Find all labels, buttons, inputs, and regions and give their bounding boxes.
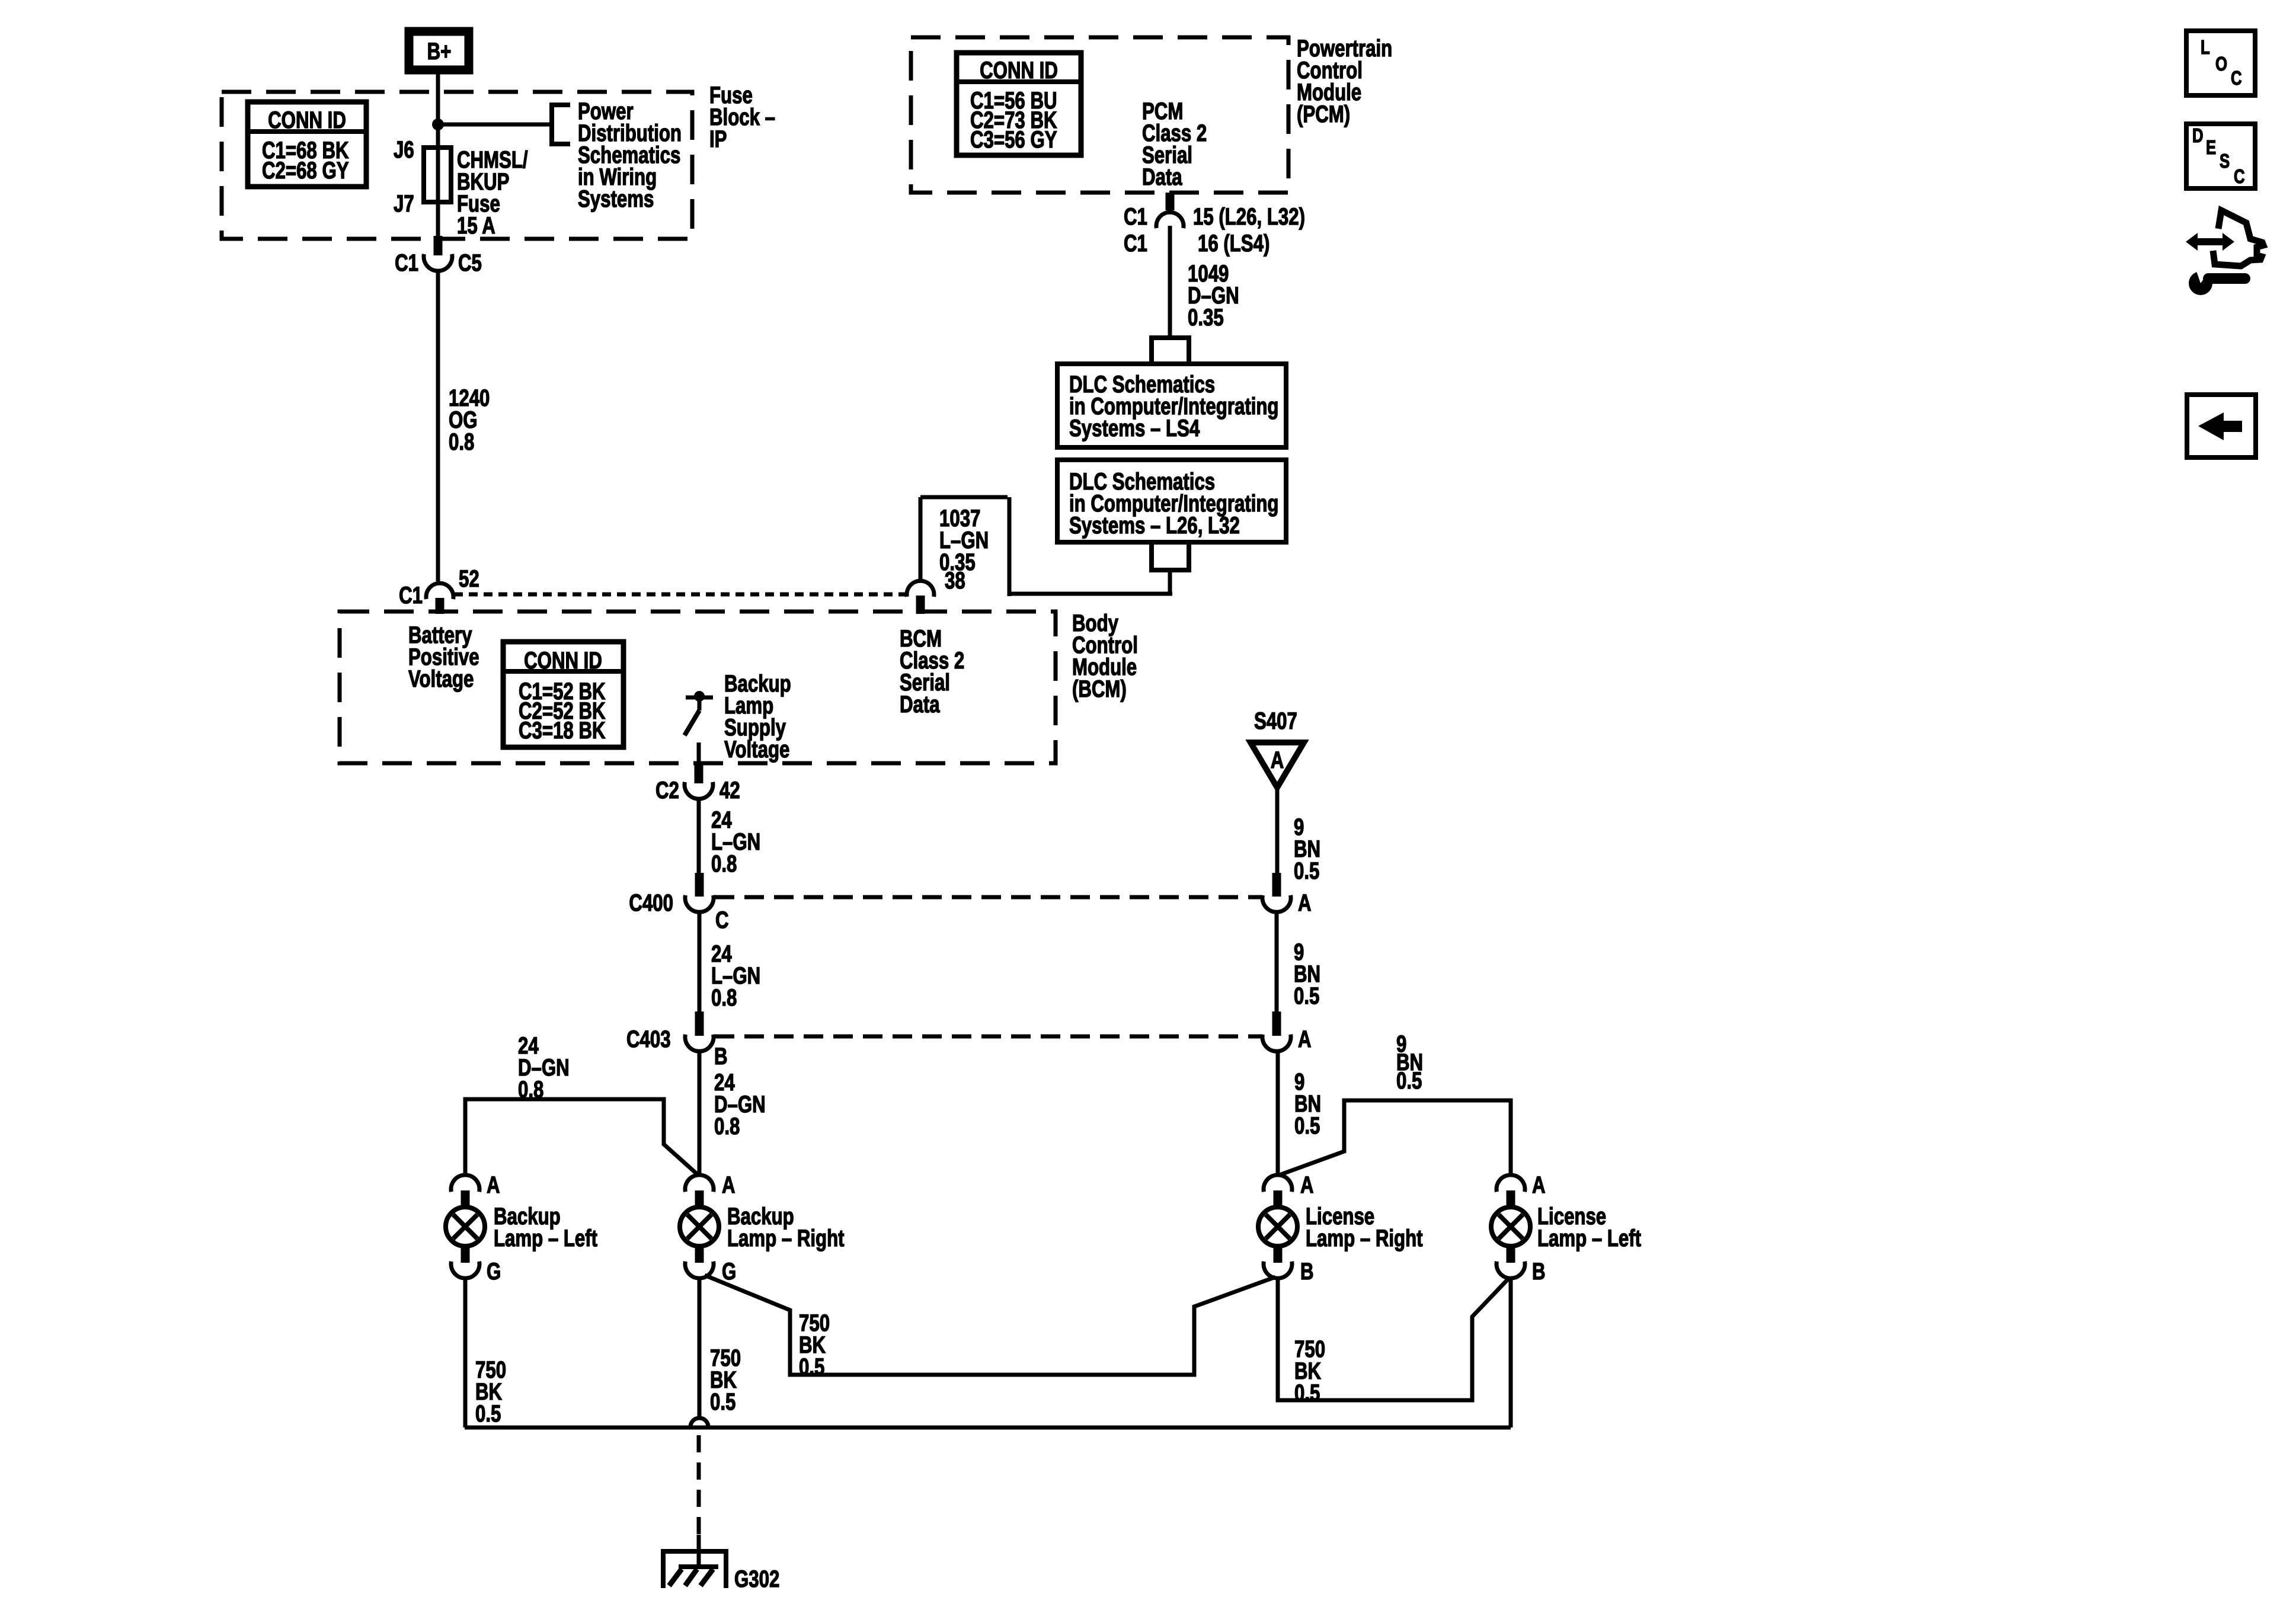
label 750 BK 0.5 [1294, 1336, 1325, 1406]
svg-text:0.8: 0.8 [711, 984, 737, 1011]
svg-text:15 A: 15 A [457, 212, 495, 239]
svg-text:(BCM): (BCM) [1072, 676, 1127, 702]
label 1049 D-GN 0.35 [1188, 260, 1239, 331]
node junction dot on B+ feed [432, 119, 444, 130]
label 750 BK 0.5 [475, 1356, 506, 1427]
lamp License Lamp - Left [1491, 1175, 1530, 1278]
svg-text:CONN ID: CONN ID [268, 107, 346, 133]
label CONN ID title (fuse block) [268, 107, 346, 133]
label Body Control Module (BCM) [1072, 610, 1138, 702]
PCM dashed box (Powertrain Control Module) [911, 37, 1288, 193]
svg-text:0.8: 0.8 [711, 850, 737, 877]
lamp Backup Lamp - Right [680, 1175, 719, 1278]
label 9 BN 0.5 [1294, 814, 1320, 884]
label 42 [720, 777, 740, 804]
wire 750 BK 0.5 backup right down [698, 1278, 702, 1419]
svg-text:C403: C403 [626, 1026, 671, 1052]
svg-text:C1: C1 [1124, 203, 1147, 230]
svg-text:B: B [1300, 1258, 1314, 1285]
connector C1 pin 52 at BCM [426, 583, 453, 614]
wire 750 BK 0.5 backup left to ground bus [463, 1278, 468, 1427]
wire 24 L-GN 0.8 (C400 to C403) [698, 912, 702, 1013]
label C5 [458, 249, 482, 276]
switch backup lamp driver inside BCM [685, 691, 713, 735]
wire junction to Power Distribution bracket [438, 123, 552, 127]
svg-text:Lamp – Left: Lamp – Left [494, 1225, 597, 1251]
label connector ids C1=56 BU / C2=73 BK / C3=56 GY [970, 87, 1057, 153]
svg-text:L: L [2201, 37, 2210, 59]
wire 9 BN 0.5 to license lamps [1276, 1051, 1280, 1176]
svg-text:A: A [1271, 747, 1284, 773]
label 16 (LS4) [1198, 230, 1269, 257]
wire 24 L-GN 0.8 (C2 to C400) [697, 799, 701, 874]
wire ground bus horizontal [465, 1426, 1511, 1430]
svg-text:C2: C2 [655, 777, 679, 804]
connector C1 pin 15/16 at PCM [1156, 193, 1184, 228]
wire 750 BK 0.5 backup right to license right [705, 1275, 1275, 1375]
svg-text:A: A [1298, 889, 1312, 916]
box DLC Schematics LS4 [1057, 364, 1286, 447]
label 24 D-GN 0.8 [714, 1069, 766, 1140]
wire bracket to 1037 run [1168, 570, 1172, 594]
label Power Distribution Schematics in Wiring Systems [578, 98, 682, 212]
wire dashed to G302 [697, 1435, 701, 1538]
label pin A [1300, 1172, 1314, 1198]
label pin A [1298, 889, 1312, 916]
svg-text:(PCM): (PCM) [1297, 101, 1350, 127]
svg-text:16 (LS4): 16 (LS4) [1198, 230, 1269, 257]
wire S407 to C400 A [1275, 788, 1280, 874]
svg-text:0.5: 0.5 [1294, 1379, 1320, 1406]
svg-text:CONN ID: CONN ID [524, 647, 602, 674]
label Powertrain Control Module (PCM) [1297, 35, 1392, 127]
label 9 BN 0.5 [1294, 939, 1320, 1009]
svg-text:0.5: 0.5 [475, 1400, 501, 1427]
svg-text:B+: B+ [427, 38, 452, 65]
svg-text:0.35: 0.35 [1188, 304, 1224, 331]
label pin A [487, 1172, 500, 1198]
svg-text:IP: IP [709, 126, 727, 152]
label pin C [715, 907, 729, 933]
svg-text:S: S [2220, 151, 2230, 172]
icon vehicle navigation arrow [2186, 210, 2263, 295]
label pin A [1298, 1026, 1312, 1052]
node splice hump at ground bus [690, 1418, 708, 1427]
label C400 [629, 889, 673, 916]
label Fuse Block - IP [709, 82, 775, 152]
label 24 D-GN 0.8 (left branch) [518, 1032, 570, 1103]
label 750 BK 0.5 [799, 1310, 830, 1380]
CONN ID table (PCM) [957, 53, 1081, 155]
svg-text:52: 52 [459, 565, 479, 592]
svg-text:Lamp – Right: Lamp – Right [727, 1225, 845, 1251]
dashed connector line C400 [715, 895, 1261, 900]
svg-text:O: O [2215, 53, 2227, 75]
wire branch to backup lamp left [465, 1099, 698, 1176]
label pin G [722, 1258, 736, 1285]
label pin G [487, 1258, 501, 1285]
connector C400 pin C (left) [685, 873, 714, 912]
label J7 [394, 190, 414, 217]
label C1 (row 2) [1124, 230, 1147, 257]
svg-text:Voltage: Voltage [724, 736, 789, 763]
off-page bracket below DLC box 2 [1152, 542, 1189, 570]
svg-text:J7: J7 [394, 190, 414, 217]
icon DESC box [2186, 124, 2255, 188]
wire 1049 D-GN 0.35 [1168, 226, 1172, 338]
svg-text:CONN ID: CONN ID [980, 57, 1058, 84]
svg-text:C3=18 BK: C3=18 BK [519, 717, 606, 744]
svg-text:E: E [2206, 137, 2216, 159]
label Battery Positive Voltage [408, 622, 479, 692]
CONN ID table (BCM) [503, 642, 623, 747]
fuse CHMSL/BKUP 15A (J6/J7) [424, 148, 451, 202]
svg-text:S407: S407 [1254, 708, 1297, 734]
label pin A [722, 1172, 736, 1198]
label DLC Schematics in Computer/Integrating Systems - L26, L32 [1069, 468, 1278, 539]
ground G302 [661, 1551, 728, 1588]
wire license left down to ground bus [1509, 1278, 1513, 1427]
svg-text:15 (L26, L32): 15 (L26, L32) [1193, 203, 1305, 230]
connector C1/C5 below fuse block [424, 236, 452, 271]
off-page bracket into DLC box 1 [1152, 338, 1189, 364]
label PCM Class 2 Serial Data [1142, 98, 1207, 190]
svg-text:Systems – LS4: Systems – LS4 [1069, 415, 1200, 441]
label J6 [394, 136, 414, 163]
label connector ids C1=68 BK / C2=68 GY [262, 137, 349, 184]
svg-text:A: A [722, 1172, 736, 1198]
connector C403 pin A (right) [1262, 1012, 1291, 1051]
svg-text:C400: C400 [629, 889, 673, 916]
label 15 (L26, L32) [1193, 203, 1305, 230]
fuse block dashed box (Fuse Block - IP) [222, 92, 692, 239]
svg-text:G: G [722, 1258, 736, 1285]
label License Lamp - Left [1537, 1203, 1641, 1251]
label C1 [395, 249, 418, 276]
wire branch to license lamp left [1281, 1100, 1511, 1176]
label 750 BK 0.5 [710, 1345, 741, 1415]
label pin B [714, 1043, 728, 1070]
label S407 [1254, 708, 1297, 734]
svg-text:C1: C1 [399, 582, 423, 609]
svg-text:Lamp – Right: Lamp – Right [1306, 1225, 1423, 1251]
svg-text:A: A [1298, 1026, 1312, 1052]
label 9 BN 0.5 (left branch) [1396, 1030, 1423, 1094]
lamp License Lamp - Right [1258, 1175, 1297, 1278]
svg-text:G302: G302 [734, 1566, 779, 1592]
svg-text:0.8: 0.8 [714, 1113, 740, 1140]
svg-text:C: C [2234, 166, 2245, 188]
svg-text:C: C [715, 907, 729, 933]
svg-text:J6: J6 [394, 136, 414, 163]
wire B+ down through fuse to connector [436, 74, 440, 237]
svg-text:0.5: 0.5 [1294, 1112, 1320, 1139]
label pin B [1300, 1258, 1314, 1285]
svg-text:A: A [1532, 1172, 1546, 1198]
label connector ids C1=52 BK / C2=52 BK / C3=18 BK [519, 678, 606, 744]
label Backup Lamp Supply Voltage [724, 670, 791, 763]
label C1 (row 1) [1124, 203, 1147, 230]
svg-text:A: A [1300, 1172, 1314, 1198]
svg-text:0.5: 0.5 [1396, 1067, 1422, 1094]
box DLC Schematics L26,L32 [1057, 460, 1286, 542]
label 24 L-GN 0.8 [711, 806, 760, 877]
node B+ battery feed [409, 31, 469, 70]
svg-text:C1: C1 [1124, 230, 1147, 257]
label 24 L-GN 0.8 [711, 940, 760, 1011]
connector C403 pin B (left) [685, 1012, 714, 1051]
bracket Power Distribution reference [552, 105, 570, 144]
svg-text:C2=68 GY: C2=68 GY [262, 157, 349, 184]
svg-text:0.8: 0.8 [449, 428, 474, 455]
svg-text:Lamp – Left: Lamp – Left [1537, 1225, 1641, 1251]
svg-text:C: C [2231, 68, 2242, 89]
wire 750 BK 0.5 license right to license left [1278, 1278, 1509, 1400]
svg-text:0.8: 0.8 [518, 1076, 543, 1103]
svg-text:0.5: 0.5 [1294, 857, 1319, 884]
svg-text:Systems: Systems [578, 185, 654, 212]
label CHMSL/BKUP Fuse 15 A [457, 146, 528, 239]
label DLC Schematics in Computer/Integrating Systems - LS4 [1069, 371, 1278, 441]
label 1037 L-GN 0.35 [939, 505, 989, 575]
wire 9 BN 0.5 (C400A to C403A) [1275, 912, 1279, 1013]
CONN ID table (fuse block) [248, 102, 366, 187]
svg-text:Systems – L26, L32: Systems – L26, L32 [1069, 512, 1240, 539]
svg-text:D: D [2192, 125, 2204, 147]
label CONN ID title (BCM) [524, 647, 602, 674]
connector C2 pin 42 [685, 764, 713, 799]
svg-text:C1: C1 [395, 249, 418, 276]
svg-text:C3=56 GY: C3=56 GY [970, 126, 1057, 153]
label G302 [734, 1566, 779, 1592]
label 1240 OG 0.8 [449, 385, 490, 455]
svg-text:Data: Data [1142, 164, 1183, 190]
label C1 [399, 582, 423, 609]
svg-text:42: 42 [720, 777, 740, 804]
dotted class-2 serial data line 52 to 38 [454, 593, 906, 597]
label CONN ID title (PCM) [980, 57, 1058, 84]
svg-text:C5: C5 [458, 249, 482, 276]
svg-text:G: G [487, 1258, 501, 1285]
label pin A [1532, 1172, 1546, 1198]
label BCM Class 2 Serial Data [900, 625, 964, 718]
svg-text:A: A [487, 1172, 500, 1198]
svg-text:B: B [1532, 1258, 1546, 1285]
label 9 BN 0.5 [1294, 1068, 1321, 1139]
label 52 [459, 565, 479, 592]
label pin B [1532, 1258, 1546, 1285]
BCM dashed box (Body Control Module) [340, 612, 1056, 763]
icon LOC box [2186, 31, 2255, 95]
lamp Backup Lamp - Left [446, 1175, 485, 1278]
label License Lamp - Right [1306, 1203, 1423, 1251]
svg-text:0.5: 0.5 [710, 1388, 736, 1415]
label Backup Lamp - Left [494, 1203, 597, 1251]
label Backup Lamp - Right [727, 1203, 845, 1251]
dashed connector line C403 [715, 1035, 1261, 1039]
svg-text:B: B [714, 1043, 728, 1070]
svg-text:0.5: 0.5 [1294, 982, 1319, 1009]
svg-text:38: 38 [945, 567, 965, 594]
label 38 [945, 567, 965, 594]
wire 1240 OG 0.8 [436, 271, 440, 581]
connector pin 38 at BCM [907, 581, 934, 614]
svg-text:0.5: 0.5 [799, 1353, 824, 1380]
wire 24 D-GN 0.8 to backup lamps [698, 1051, 702, 1176]
icon back arrow box [2187, 395, 2256, 457]
svg-text:Voltage: Voltage [408, 665, 474, 692]
connector C400 pin A (right) [1262, 873, 1291, 912]
wire switch to C2 [697, 742, 701, 764]
label C403 [626, 1026, 671, 1052]
label C2 [655, 777, 679, 804]
svg-text:Data: Data [900, 691, 941, 718]
